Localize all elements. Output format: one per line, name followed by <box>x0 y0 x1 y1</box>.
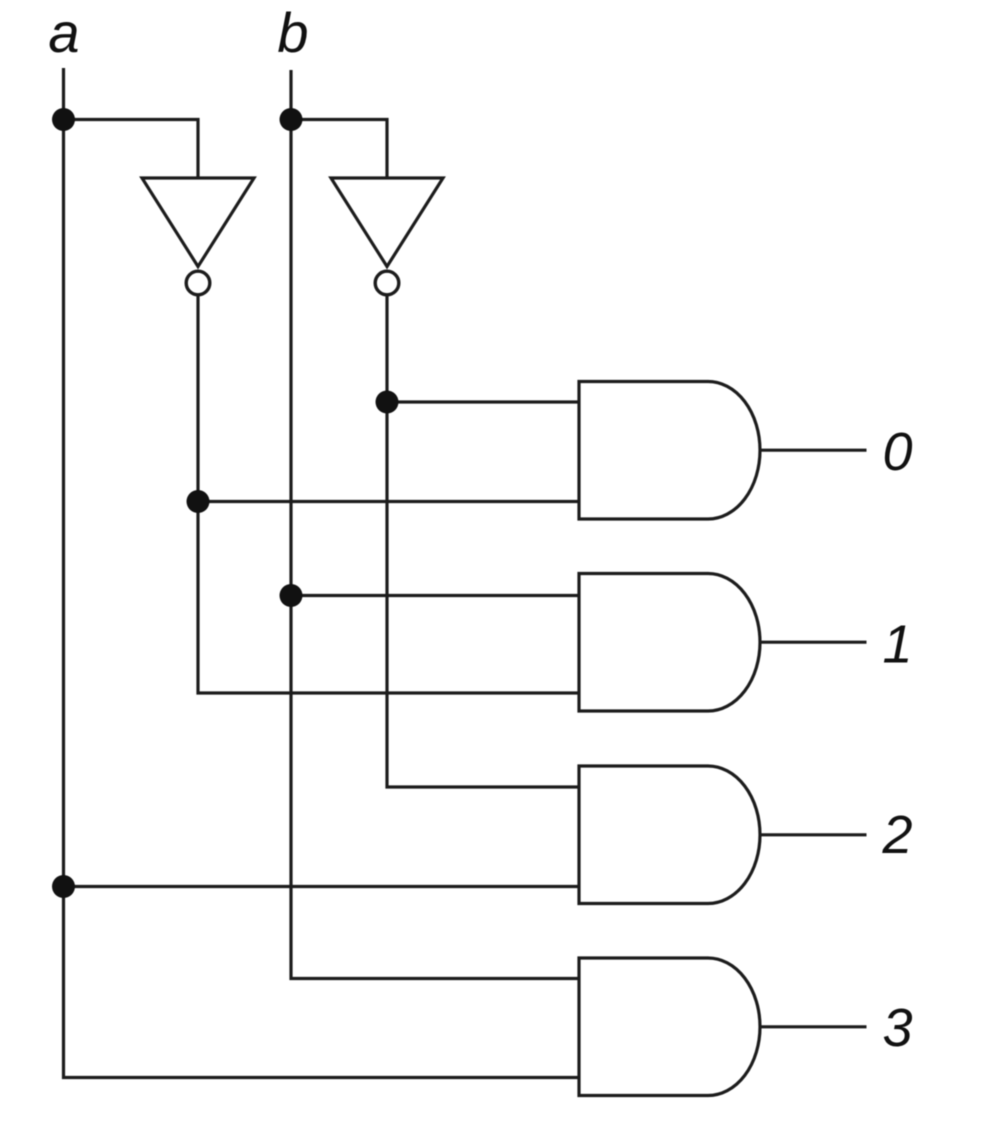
AND gate G2 <box>579 766 760 904</box>
wire: gate-0 output <box>760 449 867 452</box>
wire: input a vertical rail down to gate-3 bottom bend <box>64 68 580 1078</box>
wire: gate-3 output <box>760 1025 867 1028</box>
wire: b tap to inverter U2 input <box>291 120 387 179</box>
wire: a tap to gate-2 bottom input <box>64 885 580 888</box>
wire: gate-1 output <box>760 641 867 644</box>
inverter U1 (NOT gate for a) <box>142 178 254 295</box>
wire: b tap to gate-1 top input <box>291 594 579 597</box>
node: junction dot on a at inverter tap <box>52 108 75 131</box>
wire: NOT-b tap to gate-0 top input <box>387 400 579 403</box>
svg-text:3: 3 <box>882 998 912 1058</box>
svg-text:b: b <box>277 1 308 64</box>
svg-text:1: 1 <box>882 615 912 675</box>
AND gate G1 <box>579 574 760 712</box>
wire: gate-2 output <box>760 833 867 836</box>
svg-text:2: 2 <box>881 805 912 865</box>
AND gate G0 <box>579 382 760 520</box>
output label 1 <box>882 615 912 675</box>
wire: a tap to inverter U1 input <box>64 120 199 179</box>
wire: NOT-a tap to gate-0 bottom input <box>198 500 579 503</box>
node: junction dot on a at gate-2 tap <box>52 875 75 898</box>
input label b <box>277 1 308 64</box>
wire: NOT-b output rail down to gate-2 top input <box>387 295 579 788</box>
node: junction dot on b at inverter tap <box>280 108 303 131</box>
svg-text:0: 0 <box>882 422 912 482</box>
output label 2 <box>881 805 912 865</box>
node: junction dot on NOT-b rail <box>376 391 399 414</box>
svg-text:a: a <box>48 1 79 64</box>
output label 3 <box>882 998 912 1058</box>
AND gate G3 <box>579 958 760 1096</box>
output label 0 <box>882 422 912 482</box>
node: junction dot on b at gate-1 tap <box>280 584 303 607</box>
input label a <box>48 1 79 64</box>
inverter U2 (NOT gate for b) <box>331 178 443 295</box>
node: junction dot on NOT-a rail <box>187 490 210 513</box>
wire: input b vertical rail down to gate-3 top bend <box>291 70 579 979</box>
wire: NOT-a output rail down to gate-1 bottom input <box>198 295 579 694</box>
